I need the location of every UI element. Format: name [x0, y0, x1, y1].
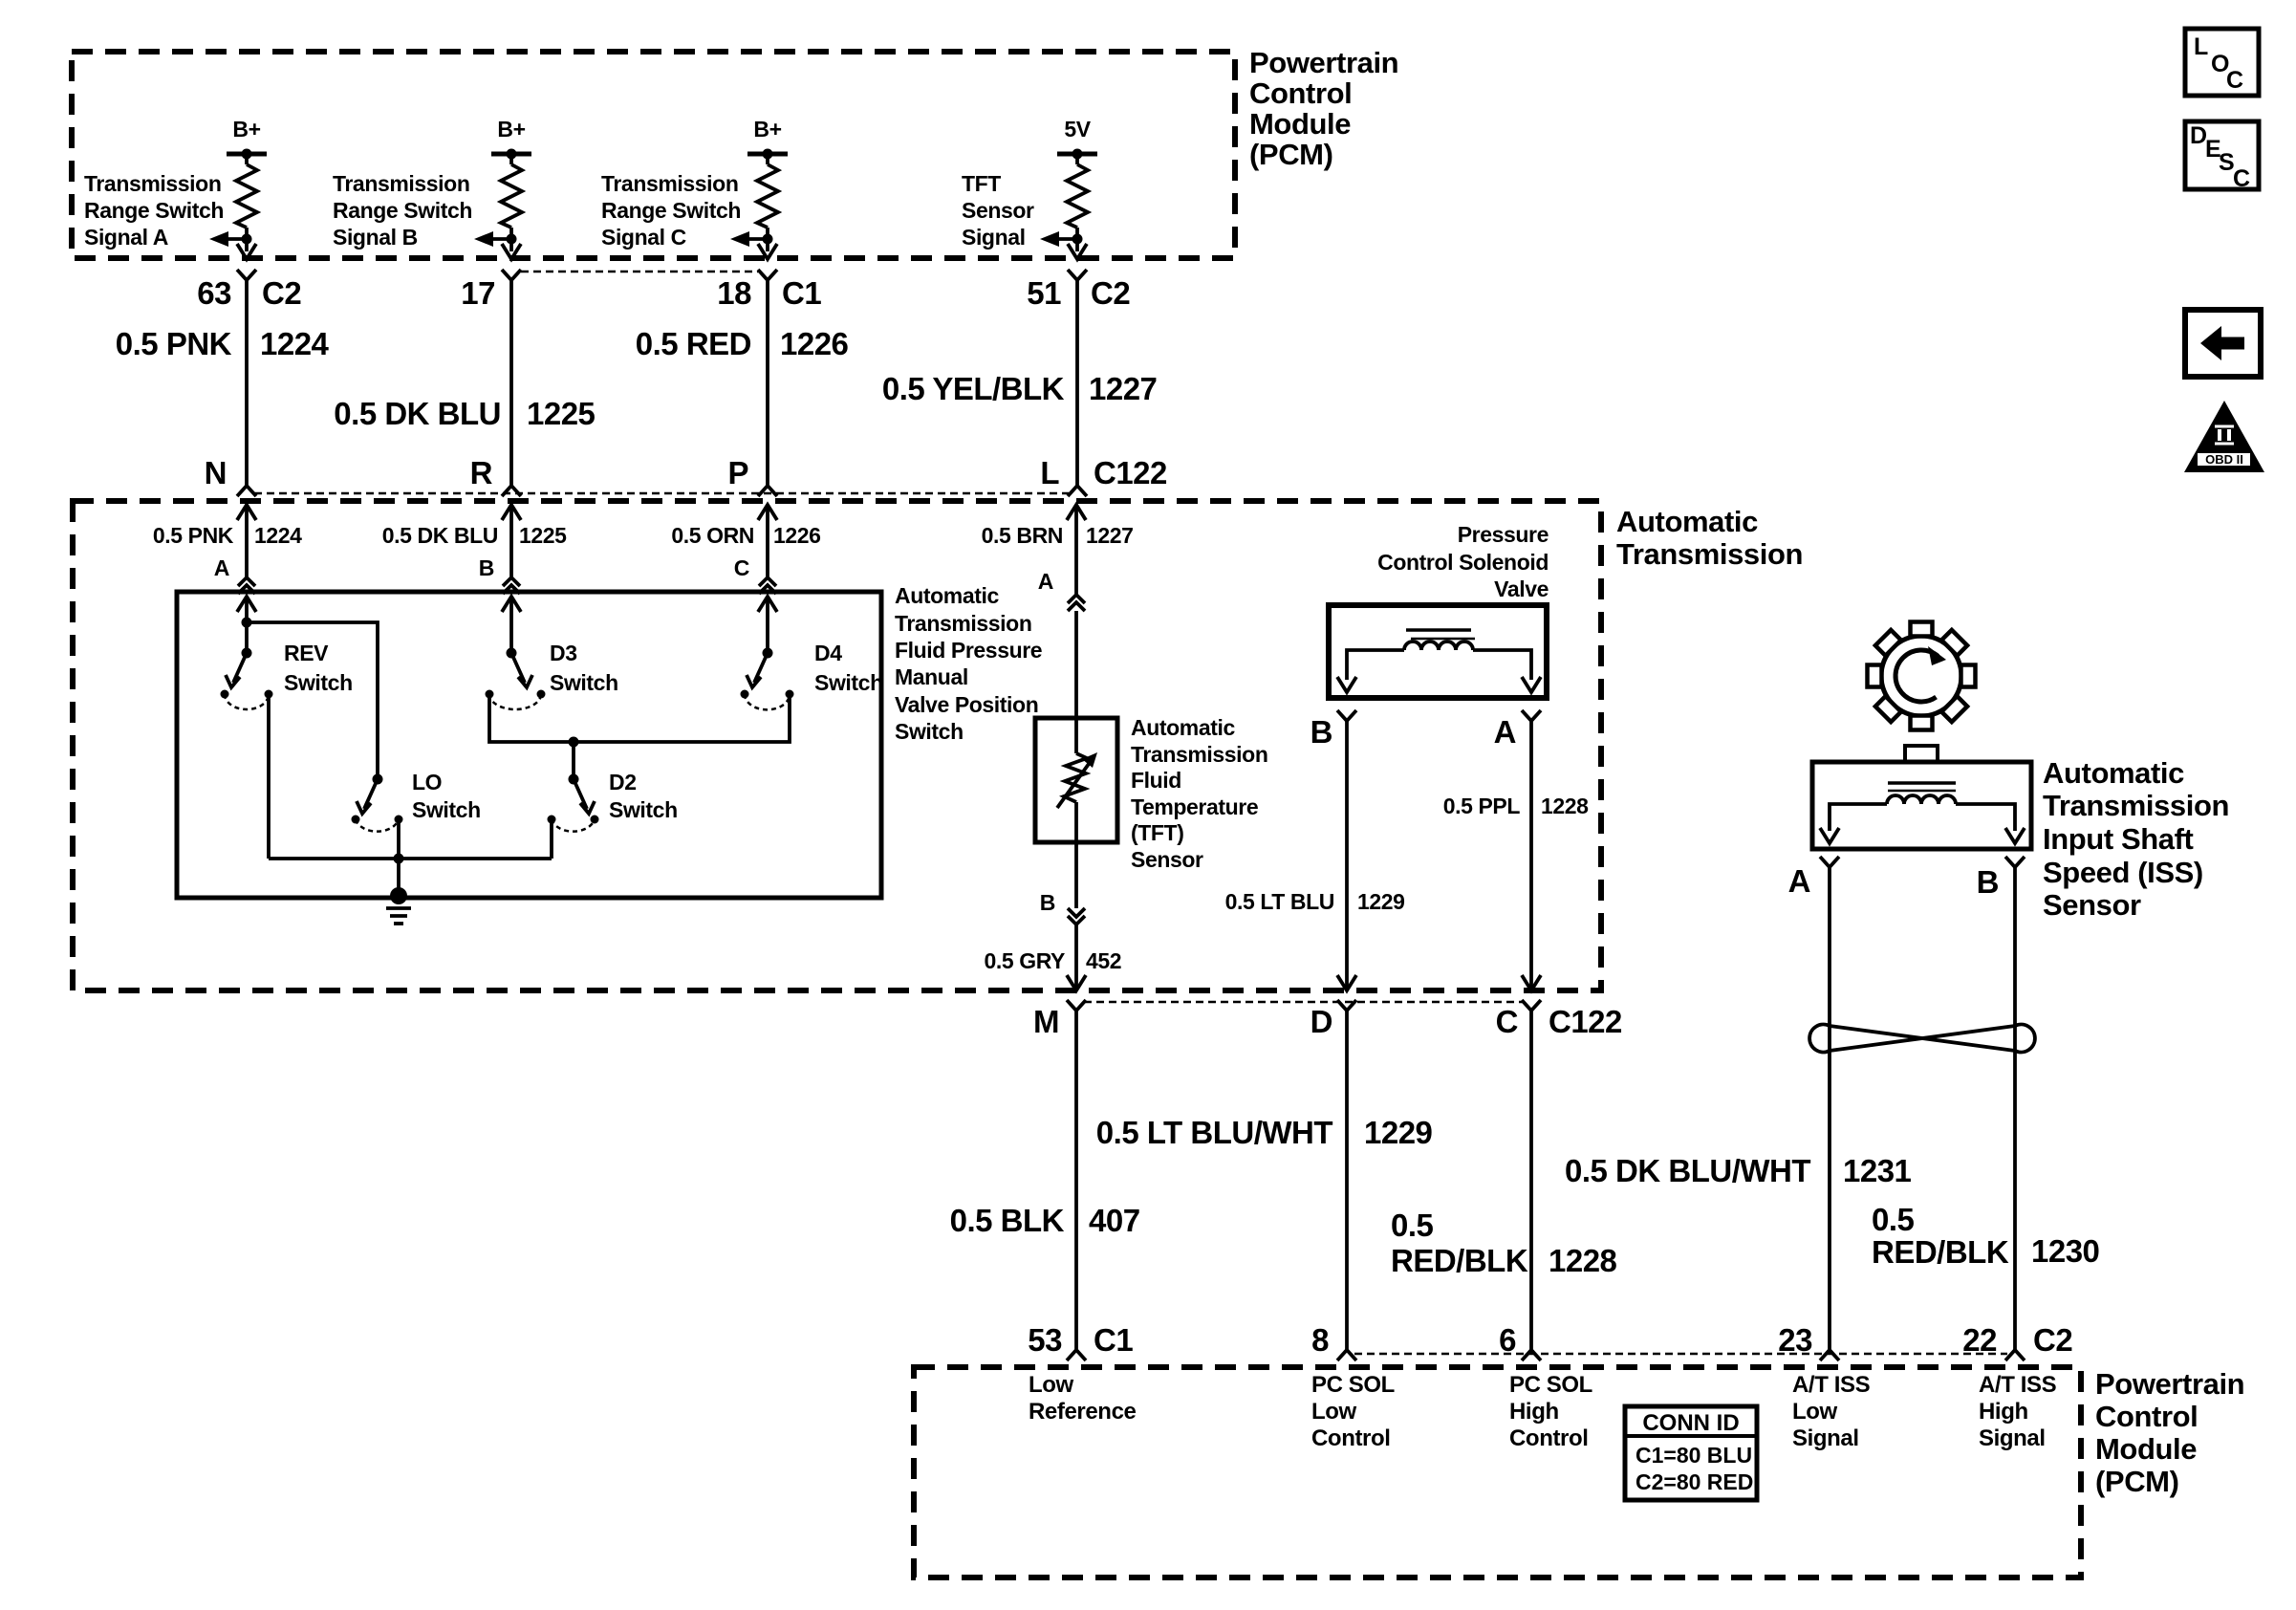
- svg-text:C122: C122: [1094, 455, 1167, 490]
- svg-text:22: 22: [1962, 1322, 1997, 1358]
- label TFT Sensor Signal: [962, 171, 1034, 250]
- svg-text:C1: C1: [782, 275, 821, 311]
- svg-text:Manual: Manual: [895, 664, 968, 689]
- svg-text:0.5 BRN: 0.5 BRN: [982, 523, 1063, 548]
- svg-text:D: D: [1310, 1004, 1332, 1039]
- svg-text:Valve Position: Valve Position: [895, 692, 1038, 717]
- svg-text:0.5 PPL: 0.5 PPL: [1443, 794, 1521, 818]
- ISS leads: [1830, 804, 1887, 831]
- node D2 feed junction: [569, 737, 579, 748]
- REV switch: [221, 648, 273, 710]
- ground bus wire: [269, 857, 552, 860]
- connector C122 pin P: [758, 486, 777, 496]
- connector C122 pin C: [1522, 1000, 1541, 1011]
- in-line connector col2: [503, 577, 520, 594]
- connector C2 dashed link (bottom): [1354, 1353, 2007, 1356]
- twisted pair symbol: [1809, 1025, 2035, 1053]
- connector C1 pin 17: [502, 270, 521, 280]
- svg-text:1228: 1228: [1541, 794, 1589, 818]
- wire 1231 DK BLU/WHT: [1828, 867, 1831, 1350]
- svg-text:C: C: [734, 555, 749, 580]
- OBD II icon: [2184, 401, 2264, 472]
- svg-text:RED/BLK: RED/BLK: [1391, 1243, 1528, 1278]
- node junction to LO feed: [242, 618, 252, 628]
- svg-text:OBD II: OBD II: [2205, 452, 2243, 467]
- svg-text:N: N: [205, 455, 227, 490]
- resistor pull-up, TR switch signal C: [730, 149, 788, 260]
- svg-text:Switch: Switch: [609, 797, 678, 822]
- svg-text:Signal C: Signal C: [601, 225, 686, 250]
- wire 1225 DK BLU: [509, 280, 513, 486]
- D4 switch: [741, 648, 794, 710]
- svg-text:0.5 LT BLU: 0.5 LT BLU: [1225, 889, 1334, 914]
- wire 1229 LT BLU/WHT: [1345, 1011, 1349, 1350]
- label Automatic Transmission: [1616, 505, 1803, 571]
- connector C122 pin M: [1067, 1000, 1086, 1011]
- svg-text:D3: D3: [550, 641, 577, 665]
- PCM (bottom) title: [2095, 1367, 2244, 1498]
- wire LO to ground bus: [397, 819, 401, 859]
- label Low Reference: [1029, 1372, 1137, 1425]
- svg-text:0.5 DK BLU: 0.5 DK BLU: [382, 523, 498, 548]
- svg-text:Transmission: Transmission: [84, 171, 221, 196]
- ISS sensor nub: [1905, 746, 1938, 762]
- wire col1 inside MVPS: [237, 597, 256, 612]
- svg-text:P: P: [727, 455, 748, 490]
- svg-text:0.5: 0.5: [1391, 1207, 1434, 1243]
- pin A of PCS valve: [1522, 710, 1541, 721]
- svg-text:Control: Control: [2095, 1400, 2198, 1433]
- pin B of ISS: [2005, 857, 2025, 867]
- svg-text:1229: 1229: [1357, 889, 1405, 914]
- svg-text:Control: Control: [1249, 76, 1352, 110]
- svg-text:Transmission: Transmission: [2043, 789, 2229, 822]
- wire 1224 PNK: [245, 280, 249, 486]
- svg-text:A: A: [1038, 569, 1053, 594]
- svg-text:5V: 5V: [1064, 117, 1091, 141]
- svg-text:0.5 DK BLU/WHT: 0.5 DK BLU/WHT: [1565, 1153, 1810, 1188]
- wire 1229 LT BLU: [1345, 721, 1349, 990]
- connector C2 pin 63: [237, 270, 256, 280]
- svg-text:B: B: [1310, 714, 1332, 750]
- wire D2 to ground bus: [550, 819, 553, 859]
- svg-text:Sensor: Sensor: [2043, 888, 2141, 922]
- svg-text:Fluid Pressure: Fluid Pressure: [895, 638, 1042, 663]
- svg-text:PC SOL: PC SOL: [1311, 1372, 1395, 1398]
- wire TFT to B: [1074, 802, 1078, 908]
- wire into AT box col4 (TFT): [1067, 505, 1086, 520]
- svg-text:Range Switch: Range Switch: [84, 198, 224, 223]
- svg-text:Switch: Switch: [814, 670, 883, 695]
- svg-text:Control: Control: [1509, 1425, 1589, 1451]
- svg-text:C: C: [2226, 67, 2243, 94]
- svg-text:0.5 BLK: 0.5 BLK: [950, 1203, 1065, 1238]
- svg-text:B+: B+: [497, 117, 525, 141]
- svg-text:0.5 DK BLU: 0.5 DK BLU: [334, 396, 501, 431]
- DESC icon: [2185, 121, 2259, 192]
- svg-text:8: 8: [1311, 1322, 1329, 1358]
- svg-text:Low: Low: [1311, 1399, 1357, 1425]
- svg-text:C2: C2: [1091, 275, 1130, 311]
- svg-text:1224: 1224: [254, 523, 302, 548]
- svg-text:L: L: [1040, 455, 1059, 490]
- wire 1228 PPL: [1529, 721, 1533, 990]
- TFT thermistor: [1057, 752, 1097, 808]
- svg-text:0.5 YEL/BLK: 0.5 YEL/BLK: [882, 371, 1065, 406]
- in-line connector col3: [759, 577, 776, 594]
- svg-text:23: 23: [1778, 1322, 1812, 1358]
- wire REV to ground bus: [267, 694, 271, 859]
- svg-text:Pressure: Pressure: [1458, 522, 1549, 547]
- svg-text:D4: D4: [814, 641, 842, 665]
- svg-text:Range Switch: Range Switch: [601, 198, 741, 223]
- svg-text:C1: C1: [1094, 1322, 1133, 1358]
- svg-text:Automatic: Automatic: [895, 583, 999, 608]
- svg-text:0.5 PNK: 0.5 PNK: [116, 326, 232, 361]
- svg-text:Transmission: Transmission: [601, 171, 738, 196]
- wire 1230 RED/BLK: [2013, 867, 2017, 1350]
- svg-text:1229: 1229: [1364, 1115, 1433, 1150]
- pin A of ISS: [1820, 857, 1839, 867]
- svg-text:Sensor: Sensor: [962, 198, 1034, 223]
- svg-text:M: M: [1033, 1004, 1059, 1039]
- svg-text:Reference: Reference: [1029, 1399, 1137, 1425]
- connector C2 pin 22: [2005, 1350, 2025, 1360]
- wire col3 inside MVPS: [758, 597, 777, 612]
- svg-text:High: High: [1979, 1399, 2028, 1425]
- svg-text:C: C: [1496, 1004, 1518, 1039]
- resistor pull-up, TR switch signal A: [209, 149, 267, 260]
- svg-text:C: C: [2233, 165, 2250, 192]
- connector C1 dashed link: [521, 271, 758, 273]
- wire into AT box col3: [758, 505, 777, 520]
- svg-text:63: 63: [197, 275, 231, 311]
- connector C2 pin 23: [1820, 1350, 1839, 1360]
- svg-text:TFT: TFT: [962, 171, 1001, 196]
- solenoid coil: [1404, 642, 1473, 650]
- svg-text:0.5 LT BLU/WHT: 0.5 LT BLU/WHT: [1096, 1115, 1333, 1150]
- wire to ground: [397, 859, 401, 896]
- LO switch: [352, 774, 403, 832]
- resistor pull-up, TR switch signal B: [474, 149, 531, 260]
- svg-text:1226: 1226: [780, 326, 849, 361]
- svg-text:High: High: [1509, 1399, 1559, 1425]
- wire 1226 RED: [766, 280, 769, 486]
- ISS coil: [1887, 795, 1956, 804]
- resistor pull-up, TFT sensor signal: [1040, 149, 1097, 260]
- svg-text:Module: Module: [1249, 107, 1351, 141]
- PCM (top) dashed box: [72, 52, 1235, 258]
- ISS reluctor gear: [1868, 622, 1976, 730]
- D2 switch: [548, 774, 599, 832]
- svg-text:Powertrain: Powertrain: [2095, 1367, 2244, 1401]
- svg-text:LO: LO: [412, 770, 442, 794]
- svg-text:REV: REV: [284, 641, 329, 665]
- svg-text:Transmission: Transmission: [895, 611, 1031, 636]
- solenoid leads: [1347, 650, 1404, 680]
- svg-text:1226: 1226: [773, 523, 821, 548]
- svg-text:Signal A: Signal A: [84, 225, 168, 250]
- Automatic Transmission dashed box: [73, 501, 1601, 990]
- connector C122 pin D: [1337, 1000, 1356, 1011]
- svg-text:Module: Module: [2095, 1432, 2197, 1466]
- svg-text:(PCM): (PCM): [1249, 138, 1333, 171]
- svg-text:(PCM): (PCM): [2095, 1465, 2179, 1498]
- svg-text:(TFT): (TFT): [1131, 820, 1183, 845]
- svg-text:Fluid: Fluid: [1131, 768, 1181, 793]
- connector C122 dashed link: [254, 492, 1069, 495]
- pin B of PCS valve: [1337, 710, 1356, 721]
- svg-text:D2: D2: [609, 770, 637, 794]
- svg-text:1228: 1228: [1549, 1243, 1617, 1278]
- svg-text:Sensor: Sensor: [1131, 847, 1203, 872]
- svg-text:Powertrain: Powertrain: [1249, 46, 1398, 79]
- svg-text:A/T ISS: A/T ISS: [1979, 1372, 2057, 1398]
- label Transmission Range Switch Signal C: [601, 171, 741, 250]
- svg-text:1225: 1225: [527, 396, 596, 431]
- label Automatic Transmission Input Shaft Speed (ISS) Sensor: [2043, 756, 2229, 922]
- svg-text:Control Solenoid: Control Solenoid: [1377, 550, 1549, 575]
- svg-text:18: 18: [717, 275, 751, 311]
- svg-text:1231: 1231: [1843, 1153, 1912, 1188]
- svg-text:Low: Low: [1792, 1399, 1838, 1425]
- svg-text:C2=80 RED: C2=80 RED: [1635, 1469, 1753, 1494]
- CONN ID table: [1625, 1406, 1757, 1500]
- svg-text:Switch: Switch: [550, 670, 618, 695]
- connector C122 pin R: [502, 486, 521, 496]
- ISS core: [1888, 781, 1956, 785]
- svg-text:407: 407: [1089, 1203, 1140, 1238]
- svg-text:B: B: [1977, 864, 1999, 900]
- svg-text:B: B: [479, 555, 494, 580]
- wire into AT box col1: [237, 505, 256, 520]
- label PC SOL High Control: [1509, 1372, 1592, 1451]
- wire 452 GRY: [1074, 925, 1078, 990]
- svg-text:Transmission: Transmission: [1131, 742, 1267, 767]
- svg-text:A: A: [214, 555, 229, 580]
- svg-text:Automatic: Automatic: [1616, 505, 1758, 538]
- wire 1227 YEL/BLK: [1075, 280, 1079, 486]
- wire 1228 RED/BLK: [1529, 1011, 1533, 1350]
- svg-text:1224: 1224: [260, 326, 330, 361]
- svg-text:Automatic: Automatic: [1131, 715, 1235, 740]
- svg-text:Automatic: Automatic: [2043, 756, 2184, 790]
- wire col2 inside MVPS: [502, 597, 521, 612]
- in-line connector col4: [1068, 595, 1085, 611]
- label PC SOL Low Control: [1311, 1372, 1395, 1451]
- svg-text:R: R: [470, 455, 493, 490]
- solenoid core: [1406, 628, 1471, 632]
- wire D3 to D2 junction: [489, 694, 574, 742]
- svg-text:1227: 1227: [1089, 371, 1157, 406]
- wire branch to LO switch: [247, 622, 378, 779]
- svg-text:0.5 GRY: 0.5 GRY: [984, 948, 1065, 973]
- svg-text:Transmission: Transmission: [1616, 537, 1803, 571]
- svg-text:Switch: Switch: [412, 797, 481, 822]
- svg-text:C2: C2: [262, 275, 301, 311]
- in-line connector col1: [238, 577, 255, 594]
- svg-text:B+: B+: [753, 117, 781, 141]
- svg-text:Switch: Switch: [895, 719, 964, 744]
- connector C2 pin 51: [1068, 270, 1087, 280]
- svg-text:0.5 RED: 0.5 RED: [636, 326, 751, 361]
- svg-text:C1=80 BLU: C1=80 BLU: [1635, 1443, 1752, 1468]
- svg-text:Signal: Signal: [1979, 1425, 2046, 1451]
- svg-text:Signal: Signal: [962, 225, 1026, 250]
- connector C1 pin 18: [758, 270, 777, 280]
- svg-text:0.5: 0.5: [1872, 1202, 1915, 1237]
- svg-text:Signal B: Signal B: [333, 225, 418, 250]
- Manual Valve Position Switch box: [177, 592, 881, 898]
- svg-text:CONN ID: CONN ID: [1642, 1410, 1739, 1436]
- svg-text:1225: 1225: [519, 523, 567, 548]
- svg-text:Switch: Switch: [284, 670, 353, 695]
- svg-text:A: A: [1494, 714, 1516, 750]
- connector C2 pin 8: [1337, 1350, 1356, 1360]
- svg-text:B: B: [1040, 890, 1055, 915]
- wire 407 BLK: [1074, 1011, 1078, 1350]
- svg-text:B+: B+: [232, 117, 260, 141]
- label A/T ISS Low Signal: [1792, 1372, 1871, 1451]
- Pressure Control Solenoid Valve label: [1377, 522, 1549, 601]
- svg-text:452: 452: [1086, 948, 1121, 973]
- svg-text:A/T ISS: A/T ISS: [1792, 1372, 1871, 1398]
- ground: [386, 887, 411, 924]
- ISS sensor box: [1812, 762, 2031, 849]
- svg-text:C122: C122: [1549, 1004, 1622, 1039]
- svg-text:51: 51: [1027, 275, 1061, 311]
- wire D4 to D2 junction: [574, 694, 790, 742]
- label A/T ISS High Signal: [1979, 1372, 2057, 1451]
- svg-text:Signal: Signal: [1792, 1425, 1859, 1451]
- svg-text:6: 6: [1499, 1322, 1516, 1358]
- svg-text:Range Switch: Range Switch: [333, 198, 472, 223]
- svg-text:RED/BLK: RED/BLK: [1872, 1234, 2009, 1270]
- connector C122 pin N: [237, 486, 256, 496]
- svg-text:Control: Control: [1311, 1425, 1391, 1451]
- svg-text:PC SOL: PC SOL: [1509, 1372, 1592, 1398]
- wire arrows at AT box bottom: [1067, 975, 1086, 990]
- label Transmission Range Switch Signal B: [333, 171, 472, 250]
- PCM (top) title: [1249, 46, 1398, 171]
- svg-text:C2: C2: [2033, 1322, 2072, 1358]
- connector C2 pin 6: [1522, 1350, 1541, 1360]
- wire into AT box col2: [502, 505, 521, 520]
- PCM (bottom) dashed box: [914, 1367, 2081, 1577]
- TFT sensor box: [1035, 718, 1117, 842]
- connector C122 pin L: [1068, 486, 1087, 496]
- svg-text:Low: Low: [1029, 1372, 1074, 1398]
- connector C122 dashed link (bottom): [1084, 1001, 1524, 1004]
- svg-text:1230: 1230: [2031, 1233, 2099, 1269]
- D3 switch: [486, 648, 546, 710]
- svg-text:Valve: Valve: [1494, 577, 1549, 601]
- svg-text:0.5 ORN: 0.5 ORN: [671, 523, 754, 548]
- label Automatic Transmission Fluid Pressure Manual Valve Position Switch: [895, 583, 1042, 744]
- svg-text:17: 17: [461, 275, 495, 311]
- svg-text:Speed (ISS): Speed (ISS): [2043, 856, 2203, 889]
- svg-text:Transmission: Transmission: [333, 171, 469, 196]
- label Automatic Transmission Fluid Temperature (TFT) Sensor: [1131, 715, 1267, 872]
- svg-text:A: A: [1788, 863, 1810, 899]
- in-line connector TFT B: [1068, 908, 1085, 925]
- label Transmission Range Switch Signal A: [84, 171, 224, 250]
- wire junction to D2: [572, 742, 575, 779]
- svg-text:53: 53: [1028, 1322, 1062, 1358]
- node ground junction: [394, 854, 404, 864]
- LOC icon: [2185, 29, 2259, 96]
- svg-text:L: L: [2194, 33, 2208, 60]
- svg-text:Temperature: Temperature: [1131, 794, 1258, 819]
- svg-text:0.5 PNK: 0.5 PNK: [153, 523, 234, 548]
- connector C1 pin 53: [1067, 1350, 1086, 1360]
- back arrow icon: [2185, 310, 2261, 377]
- svg-text:Input Shaft: Input Shaft: [2043, 822, 2194, 856]
- Pressure Control Solenoid Valve box: [1329, 605, 1547, 698]
- svg-text:1227: 1227: [1086, 523, 1134, 548]
